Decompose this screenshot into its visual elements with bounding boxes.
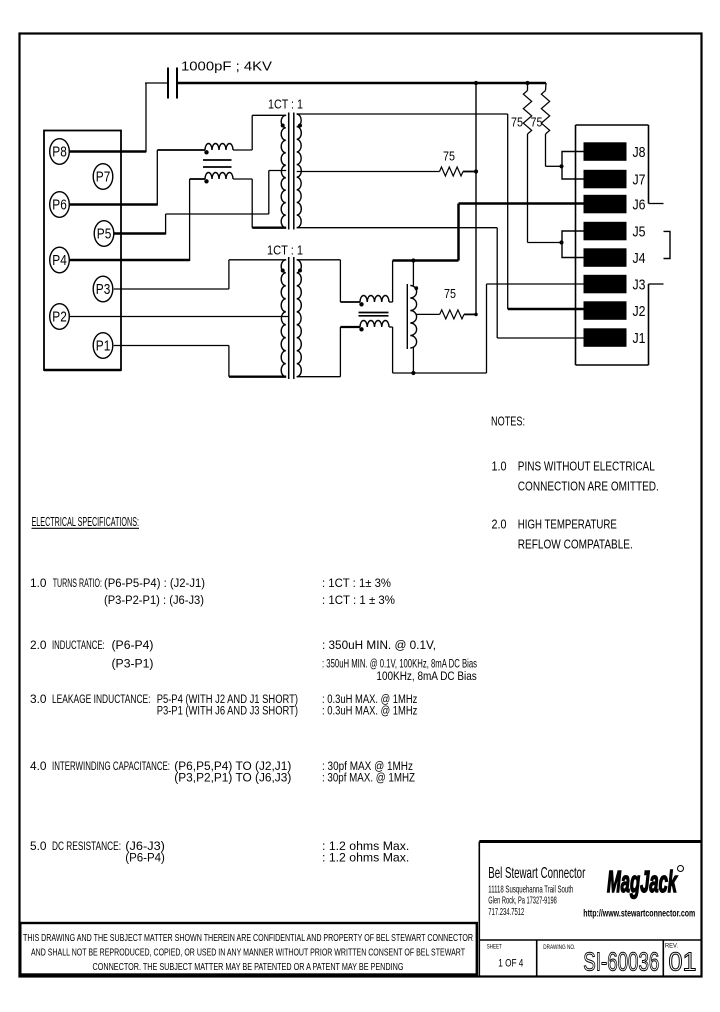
svg-text:INTERWINDING CAPACITANCE:: INTERWINDING CAPACITANCE: (52, 759, 170, 773)
svg-text:75: 75 (444, 287, 456, 301)
svg-text:75: 75 (511, 116, 523, 130)
svg-text:P8: P8 (52, 145, 67, 161)
svg-text:SHEET: SHEET (487, 944, 502, 951)
svg-text:: 30pf MAX. @ 1MHZ: : 30pf MAX. @ 1MHZ (322, 771, 415, 785)
svg-text:11118 Susquehanna Trail South: 11118 Susquehanna Trail South (488, 885, 573, 896)
svg-text:100KHz, 8mA DC Bias: 100KHz, 8mA DC Bias (376, 669, 476, 683)
svg-text:DRAWING NO.: DRAWING NO. (543, 944, 575, 951)
svg-text:(P6-P5-P4) : (J2-J1): (P6-P5-P4) : (J2-J1) (104, 576, 205, 590)
svg-text:SI-60036: SI-60036 (583, 947, 659, 977)
svg-text:CONNECTOR. THE SUBJECT MATTER: CONNECTOR. THE SUBJECT MATTER MAY BE PAT… (93, 961, 404, 973)
svg-text:(P6-P4): (P6-P4) (125, 851, 165, 865)
svg-text:P1: P1 (96, 339, 111, 355)
svg-text:NOTES:: NOTES: (491, 414, 525, 429)
svg-text:1CT : 1: 1CT : 1 (267, 244, 303, 258)
svg-text:J4: J4 (633, 250, 646, 267)
svg-text:INDUCTANCE:: INDUCTANCE: (52, 638, 105, 652)
svg-text:(P3-P1): (P3-P1) (112, 657, 154, 671)
svg-text:P3: P3 (96, 282, 111, 298)
svg-text:P6: P6 (52, 198, 67, 214)
svg-text:J2: J2 (633, 303, 646, 320)
svg-text:5.0: 5.0 (30, 839, 47, 853)
svg-text:J5: J5 (633, 223, 646, 240)
svg-text:1.0: 1.0 (30, 576, 47, 590)
svg-text:(P6-P4): (P6-P4) (112, 638, 154, 652)
svg-text:THIS DRAWING AND THE SUBJECT M: THIS DRAWING AND THE SUBJECT MATTER SHOW… (23, 932, 473, 944)
svg-text:: 350uH MIN. @ 0.1V,: : 350uH MIN. @ 0.1V, (322, 638, 436, 652)
svg-text:AND SHALL NOT BE REPRODUCED, C: AND SHALL NOT BE REPRODUCED, COPIED, OR … (31, 947, 465, 959)
svg-text:J3: J3 (633, 276, 646, 293)
svg-text:P4: P4 (52, 253, 67, 269)
svg-text:3.0: 3.0 (30, 692, 47, 706)
svg-text:1 OF 4: 1 OF 4 (498, 958, 523, 970)
svg-text:J7: J7 (633, 171, 646, 188)
svg-text:P5: P5 (97, 227, 112, 243)
svg-text:MagJack: MagJack (607, 864, 678, 899)
svg-text:P7: P7 (96, 170, 111, 186)
svg-text:1.0: 1.0 (492, 459, 507, 474)
svg-text:P3-P1 (WITH J6 AND J3 SHORT): P3-P1 (WITH J6 AND J3 SHORT) (157, 704, 298, 718)
svg-text:J6: J6 (633, 196, 646, 213)
svg-text:4.0: 4.0 (30, 759, 47, 773)
svg-text:: 1CT : 1 ± 3%: : 1CT : 1 ± 3% (322, 593, 395, 607)
svg-text:PINS WITHOUT ELECTRICAL: PINS WITHOUT ELECTRICAL (518, 459, 655, 474)
svg-text:P2: P2 (52, 310, 67, 326)
svg-text:01: 01 (669, 947, 697, 977)
svg-text:1000pF ; 4KV: 1000pF ; 4KV (181, 60, 273, 74)
svg-text:Bel Stewart Connector: Bel Stewart Connector (488, 865, 585, 882)
svg-text:http://www.stewartconnector.co: http://www.stewartconnector.com (583, 909, 695, 920)
svg-text:(P3,P2,P1) TO (J6,J3): (P3,P2,P1) TO (J6,J3) (174, 771, 291, 785)
svg-text:LEAKAGE INDUCTANCE:: LEAKAGE INDUCTANCE: (52, 692, 151, 706)
svg-text:HIGH TEMPERATURE: HIGH TEMPERATURE (518, 517, 617, 532)
svg-text:75: 75 (443, 150, 455, 164)
svg-text:J1: J1 (633, 330, 646, 347)
svg-text:75: 75 (531, 116, 543, 130)
svg-text:2.0: 2.0 (30, 638, 47, 652)
svg-text:Glen Rock, Pa 17327-9198: Glen Rock, Pa 17327-9198 (488, 896, 557, 907)
svg-text:1CT : 1: 1CT : 1 (268, 98, 303, 112)
svg-text:J8: J8 (633, 144, 646, 161)
svg-text:TURNS RATIO:: TURNS RATIO: (53, 576, 102, 590)
svg-text:CONNECTION ARE OMITTED.: CONNECTION ARE OMITTED. (518, 479, 659, 494)
svg-text:: 0.3uH MAX. @ 1MHz: : 0.3uH MAX. @ 1MHz (322, 704, 417, 718)
svg-text:: 1.2 ohms Max.: : 1.2 ohms Max. (322, 851, 409, 865)
svg-text:2.0: 2.0 (492, 517, 507, 532)
svg-text:DC RESISTANCE:: DC RESISTANCE: (52, 839, 121, 853)
svg-text:(P3-P2-P1) : (J6-J3): (P3-P2-P1) : (J6-J3) (104, 593, 204, 607)
svg-text:REFLOW COMPATABLE.: REFLOW COMPATABLE. (518, 537, 633, 552)
svg-text:717.234.7512: 717.234.7512 (488, 907, 524, 918)
svg-text:ELECTRICAL SPECIFICATIONS:: ELECTRICAL SPECIFICATIONS: (32, 515, 140, 529)
svg-text:: 1CT : 1± 3%: : 1CT : 1± 3% (322, 576, 391, 590)
